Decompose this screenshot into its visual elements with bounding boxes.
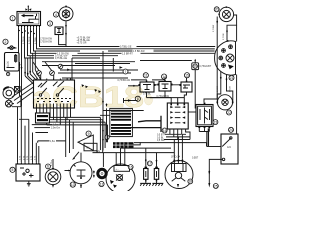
wires linking relay row	[131, 78, 187, 85]
ground bar Z2	[152, 182, 163, 186]
svg-text:11: 11	[144, 74, 148, 78]
wire y97 under relays	[147, 97, 185, 99]
switch box drop wires	[199, 128, 209, 146]
wire into S24	[207, 146, 221, 148]
inline connector pair a	[82, 84, 89, 88]
bus label 5 inline	[122, 52, 141, 55]
svg-text:0,75BL: 0,75BL	[35, 36, 37, 44]
svg-text:22: 22	[227, 111, 231, 115]
svg-text:0,75GN-SW: 0,75GN-SW	[40, 39, 53, 41]
label 4	[53, 12, 58, 17]
wire x72 drop	[71, 58, 73, 80]
E10 left stub wire	[65, 170, 71, 172]
coil left feed wires	[100, 51, 144, 151]
svg-text:0,75GN-BT: 0,75GN-BT	[200, 66, 212, 68]
label 17	[147, 161, 152, 166]
svg-text:16: 16	[163, 129, 167, 133]
wire bus into 19	[140, 60, 192, 62]
wire drop from U1 pin7 to bus	[37, 27, 43, 49]
svg-text:0,75w: 0,75w	[51, 160, 53, 166]
tail lamp E22	[217, 95, 234, 110]
heavy battery cable	[120, 116, 161, 132]
svg-text:0,75GN-SW: 0,75GN-SW	[40, 42, 53, 44]
label 14	[162, 74, 167, 79]
label 24	[229, 127, 234, 132]
tiny vertical labels on bundle	[23, 36, 37, 44]
svg-text:1,5w: 1,5w	[50, 141, 55, 143]
connector circle B	[50, 71, 55, 80]
bottom bus y134.3	[165, 133, 186, 135]
switch lever a	[39, 94, 41, 96]
relay K11	[139, 80, 156, 92]
park lamp E3	[3, 87, 15, 99]
label 11	[143, 73, 148, 78]
bundle lamps to switch	[12, 83, 34, 104]
left vertical pair down	[20, 62, 22, 107]
label 1	[10, 16, 15, 21]
label 3	[47, 21, 52, 26]
brake switch box S24	[221, 134, 238, 164]
wires x25-35 drop with connectors	[25, 51, 35, 76]
svg-text:1,5 BR-RT: 1,5 BR-RT	[122, 54, 133, 56]
connector marks pod wires	[220, 76, 228, 81]
label 22	[227, 110, 232, 115]
label 18	[188, 179, 193, 184]
tail unit E18	[165, 161, 193, 189]
switch contact ticks	[37, 98, 71, 100]
svg-text:4: 4	[55, 13, 57, 17]
label 21	[229, 75, 234, 80]
svg-text:aCB18: aCB18	[32, 81, 144, 114]
label 12	[99, 181, 104, 186]
wire drop from U1 pin1	[18, 27, 20, 52]
heavy wire box23 to S24	[207, 129, 209, 147]
wire drop from U1 pin5 to bus	[31, 27, 43, 53]
ring grommet 12	[98, 169, 106, 177]
wire S24 to arrow 25	[209, 159, 222, 183]
wire drop from U1 pin3 to bus	[25, 27, 41, 58]
bottom bus y142.2 to S24	[134, 143, 207, 147]
svg-text:2: 2	[5, 40, 7, 44]
label 20	[214, 7, 219, 12]
fuse box F2 (left)	[5, 53, 20, 72]
flasher relay K1	[55, 27, 63, 35]
relay bottom drop wires	[147, 91, 187, 98]
K5 top pin arrowheads	[17, 162, 40, 164]
wire y85.8 into K11	[128, 85, 139, 87]
E18 top pins	[171, 156, 183, 164]
wire y140.9 w label	[38, 140, 66, 142]
pod bottom wire to lamp	[217, 72, 233, 102]
jog wires left	[19, 119, 48, 142]
svg-text:0,75GN: 0,75GN	[23, 36, 25, 44]
wire y61.7	[42, 61, 135, 63]
bottom bus y139.5	[164, 139, 190, 141]
connector marks on headlamp wires	[216, 20, 228, 33]
svg-text:0,75GE: 0,75GE	[29, 36, 31, 44]
coil output wire right	[134, 142, 141, 145]
block bottom drop wires	[170, 129, 190, 140]
svg-text:+0,75 BL-SW: +0,75 BL-SW	[77, 37, 92, 39]
bottom bus y148.1	[121, 147, 172, 149]
connector block X16	[167, 103, 188, 129]
svg-text:1: 1	[12, 17, 14, 21]
headlight unit E10	[70, 162, 92, 184]
svg-text:18: 18	[188, 180, 192, 184]
svg-text:0,75 BL-GE: 0,75 BL-GE	[55, 58, 67, 60]
instrument pod P1	[215, 40, 236, 75]
svg-text:0,75SW: 0,75SW	[213, 25, 215, 32]
vertical wire labels pod drops	[217, 86, 231, 92]
connector diamonds between 10 and 12	[93, 170, 95, 178]
inline connector pair b	[95, 89, 102, 93]
label 11b on coil edge	[105, 135, 109, 140]
label 10	[70, 182, 75, 187]
bus label 3 inline	[57, 52, 78, 55]
connector circle A	[37, 71, 42, 80]
M9 output wire	[93, 151, 104, 153]
svg-text:+0,75 BL-GE: +0,75 BL-GE	[77, 40, 91, 42]
connector box 19	[192, 59, 199, 108]
connector circle C	[58, 64, 63, 69]
left drop wires to relay box 5	[18, 107, 39, 163]
svg-text:1,0w: 1,0w	[53, 125, 58, 127]
pod bulb b1	[222, 49, 226, 53]
right edge trunk wire	[236, 25, 238, 134]
wire y78	[62, 77, 128, 79]
pod top wire tick	[227, 40, 229, 42]
ground bar Z1	[140, 182, 151, 186]
kill switch above coils	[124, 98, 138, 103]
svg-text:12w: 12w	[96, 151, 101, 153]
connector diamonds on coil feeds	[102, 100, 107, 142]
bus wire y48.9	[42, 48, 215, 50]
alternator feed wires	[116, 142, 125, 165]
spark plug Z2	[154, 167, 158, 182]
svg-text:15: 15	[185, 74, 189, 78]
mid drop wires below collectors	[66, 117, 74, 157]
svg-text:3: 3	[49, 22, 51, 26]
switch top pin ticks	[36, 79, 71, 81]
label 7 circle	[123, 69, 128, 74]
svg-text:25: 25	[214, 184, 218, 188]
starter relay M9	[78, 135, 97, 151]
svg-text:TGL: TGL	[86, 147, 91, 149]
headlamp left wire down	[204, 17, 217, 103]
bus wires top middle	[40, 45, 215, 60]
headlamp right wire to pod	[227, 15, 237, 42]
bottom bus y152.6	[103, 152, 174, 154]
svg-text:6: 6	[47, 165, 49, 169]
switch box S23	[196, 103, 213, 129]
diag bundle into switch box	[25, 70, 41, 84]
coil secondary block	[113, 142, 134, 148]
resistor box 15	[180, 80, 193, 92]
label 25	[213, 184, 218, 189]
svg-text:23: 23	[214, 120, 218, 124]
switch comb drop wires	[37, 108, 71, 125]
wire y124.6 w label	[32, 124, 52, 126]
svg-text:16: 16	[129, 165, 133, 169]
wire y63.5	[75, 63, 130, 65]
ignition coil T2 bars lower	[111, 124, 131, 135]
E18 riser wires	[174, 134, 182, 158]
switch lever b	[56, 94, 58, 96]
wire drop from U1 pin8 to bus	[40, 27, 45, 46]
label 8	[135, 96, 140, 101]
horn wire down	[65, 21, 67, 47]
connector diamonds on pair	[19, 63, 23, 70]
wire drop from U1 pin2	[21, 27, 23, 62]
lamp wires	[9, 96, 21, 107]
plug feed wires	[146, 148, 157, 167]
wire drop from U1 pin6 to bus	[34, 27, 43, 51]
ignition coil T1 bars upper	[111, 110, 131, 121]
bus wire y55.7	[40, 55, 118, 57]
relay unit U1 (top-left)	[17, 12, 41, 26]
label 23	[213, 120, 218, 125]
watermark stamp overlay	[32, 81, 153, 114]
collector bus y124.9	[47, 125, 108, 142]
bus label 4 inline	[133, 49, 154, 52]
turn lamp E4	[5, 100, 12, 107]
svg-text:0,5GR: 0,5GR	[229, 86, 231, 92]
svg-text:0,5BT: 0,5BT	[192, 158, 199, 160]
wire y127.6 w label	[34, 127, 50, 129]
inline connector c	[67, 69, 70, 72]
headlamp front E1	[218, 6, 233, 21]
relay box K5 (bottom left)	[16, 164, 40, 186]
collector bus y117.4	[37, 117, 101, 150]
label 6	[46, 164, 51, 169]
connector chevrons on drops	[18, 30, 35, 35]
wire y65.5	[42, 65, 115, 67]
svg-text:0,5 SW: 0,5 SW	[157, 140, 165, 142]
svg-text:5: 5	[12, 168, 14, 172]
wire drop from U1 pin4 to bus	[28, 27, 41, 56]
mid wires to relays	[42, 58, 138, 93]
svg-text:19: 19	[193, 65, 197, 69]
vertical wire labels right top	[213, 25, 225, 40]
alternator G13	[106, 164, 135, 193]
bus wire y51	[42, 50, 215, 52]
svg-text:9: 9	[88, 132, 90, 136]
vertical labels above box 5	[20, 155, 37, 160]
collector bus y122.1	[43, 122, 105, 148]
svg-text:20: 20	[215, 8, 219, 12]
label 9	[86, 131, 91, 136]
terminal circle under F2	[6, 72, 9, 75]
svg-text:1,5 GN-SW: 1,5 GN-SW	[57, 53, 70, 55]
bus wire y46.5	[44, 46, 215, 48]
wire y70	[60, 69, 138, 71]
svg-text:1,5w-Gw: 1,5w-Gw	[51, 128, 60, 130]
connector box with X	[15, 87, 21, 93]
relay K14	[158, 80, 173, 91]
label 16	[162, 128, 167, 133]
block feed wires up	[150, 98, 184, 104]
pod needle wedge	[228, 65, 234, 70]
label 15	[184, 73, 189, 78]
svg-text:0,75GE: 0,75GE	[223, 33, 225, 40]
bus wire y58	[40, 57, 100, 59]
label 5	[10, 167, 15, 172]
horn wire connectors	[65, 24, 67, 36]
svg-text:14: 14	[162, 75, 166, 79]
block to box23 wire	[188, 111, 196, 113]
label 16b	[128, 165, 133, 170]
bus wire y53.3	[42, 52, 215, 54]
diag wires to connector circles	[33, 62, 52, 71]
collector bus y119.7	[40, 120, 103, 153]
svg-text:10: 10	[71, 183, 75, 187]
flasher wire down to bus	[59, 35, 66, 45]
svg-text:24: 24	[229, 128, 233, 132]
svg-text:7: 7	[125, 70, 127, 74]
lamp E6	[45, 168, 61, 188]
svg-text:12: 12	[100, 182, 104, 186]
svg-text:17: 17	[148, 162, 152, 166]
relay U1 top terminal 30	[25, 6, 31, 12]
block pins right column	[182, 106, 185, 124]
coil frame	[110, 108, 133, 136]
E18 bottom terminal	[177, 188, 179, 190]
svg-text:1F Cr 2#: 1F Cr 2#	[171, 156, 181, 159]
pod bulb b4	[222, 64, 226, 68]
horn H1	[59, 6, 73, 21]
wire to E6	[52, 159, 54, 168]
svg-text:21: 21	[230, 76, 234, 80]
block top pins	[170, 103, 172, 105]
block pins left column	[170, 106, 173, 124]
bus label 6 inline	[120, 45, 137, 48]
svg-text:+0,75 GR: +0,75 GR	[77, 43, 87, 45]
svg-text:0,5SW: 0,5SW	[217, 86, 219, 92]
diode board box	[36, 113, 50, 123]
svg-text:0,5 BT: 0,5 BT	[157, 135, 164, 137]
wire y73	[58, 72, 131, 74]
wire into 12	[102, 153, 104, 167]
spark plug Z1	[144, 167, 148, 182]
wire x113 stub	[112, 58, 114, 72]
switch inner comb	[37, 104, 71, 109]
plug wire connectors	[145, 159, 158, 163]
arrow terminal down	[208, 183, 210, 188]
relay U1 bottom pins	[18, 26, 40, 28]
combination switch S9 box	[34, 79, 75, 109]
label 2	[3, 39, 8, 44]
M9 arrow down-left	[74, 152, 80, 159]
pod bulb b2	[229, 45, 233, 49]
pod bulb b3	[219, 56, 223, 60]
E10 top/bottom wires	[80, 153, 82, 188]
bottom bus y136.9	[166, 136, 190, 138]
svg-text:0,75BL-GE: 0,75BL-GE	[120, 46, 132, 48]
inline connector near F2 top	[7, 46, 17, 50]
